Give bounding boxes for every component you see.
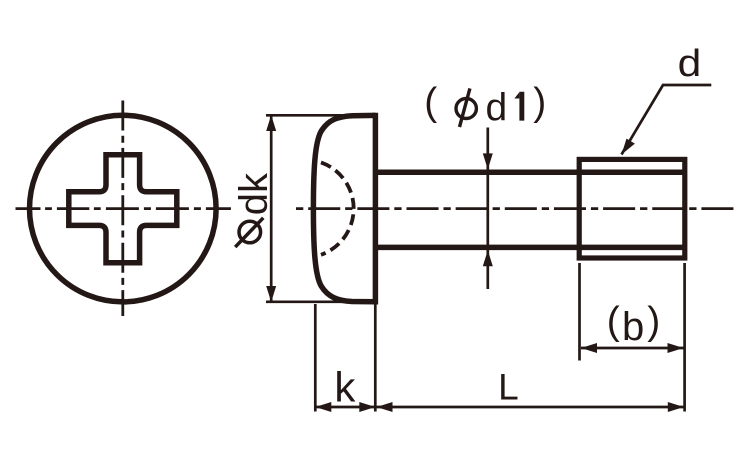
k arrow left <box>315 402 331 412</box>
k dimension line <box>315 406 375 409</box>
k extension line left <box>314 304 317 412</box>
front view vertical centerline <box>121 101 124 317</box>
svg-text:(: ( <box>607 300 620 343</box>
dk dimension extension line top <box>266 114 352 117</box>
L arrow right <box>668 402 684 412</box>
svg-text:d: d <box>486 86 508 129</box>
phi symbol of phi dk <box>235 218 263 247</box>
b extension line right <box>683 263 686 412</box>
svg-text:): ) <box>647 300 660 343</box>
svg-text:b: b <box>622 305 644 349</box>
side view head outline (crown profile) <box>313 115 375 301</box>
L arrow left <box>377 402 393 412</box>
label (b) <box>607 300 661 349</box>
dk dimension line <box>270 116 273 301</box>
d leader line <box>622 85 712 155</box>
dk arrow down <box>266 286 276 302</box>
shank bottom line (root dia) <box>377 245 685 251</box>
svg-text:): ) <box>533 81 546 124</box>
front view horizontal centerline <box>16 207 232 210</box>
b extension line left <box>578 263 581 361</box>
d1 arrow down <box>483 153 493 169</box>
phi symbol of (phi d1) <box>456 88 476 127</box>
k extension line right (head face) <box>374 304 377 412</box>
side view head right face <box>373 113 379 305</box>
thread outer rectangle <box>579 159 685 258</box>
svg-text:L: L <box>498 366 519 407</box>
d leader arrowhead <box>622 139 635 155</box>
side view centerline <box>296 207 735 210</box>
hidden recess arc (dashed) <box>321 162 354 254</box>
label (phi d1) <box>424 81 546 130</box>
b arrow left <box>581 343 597 353</box>
svg-text:k: k <box>334 364 356 411</box>
front view head circle <box>30 115 217 302</box>
phillips cross recess outline <box>69 155 177 263</box>
shank top line (root dia) <box>377 169 685 175</box>
L dimension line <box>377 406 684 409</box>
d1 arrow up <box>483 250 493 266</box>
b dimension line <box>581 347 684 350</box>
svg-text:(: ( <box>424 81 437 124</box>
d1 dimension line vertical <box>486 128 489 290</box>
svg-text:d: d <box>678 41 702 84</box>
dk arrow up <box>266 115 276 131</box>
svg-text:dk: dk <box>232 172 276 215</box>
b arrow right <box>668 343 684 353</box>
k arrow right <box>359 402 375 412</box>
dk dimension extension line bottom <box>266 300 352 303</box>
